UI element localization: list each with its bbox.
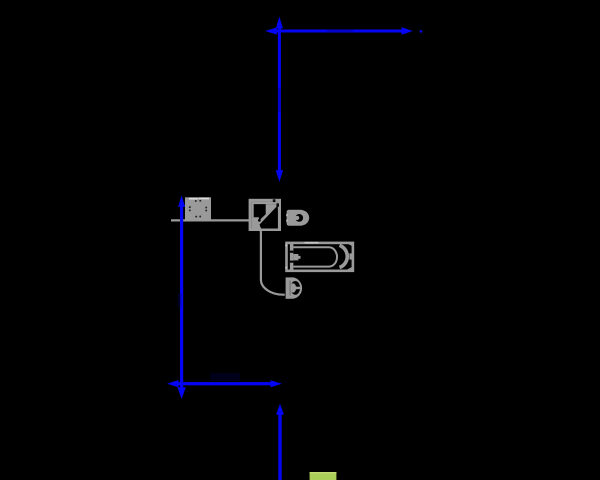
- dim text remnant above H2: [210, 373, 240, 381]
- dimension line V2 (left vertical, arrows both ends): [177, 196, 185, 400]
- stray blue dot right of H1 arrow: [420, 30, 423, 33]
- wall line with curved pipe to toilet: [171, 220, 285, 294]
- dimension line H2 (bottom horizontal, arrows both ends): [167, 380, 282, 387]
- washing machine: [185, 197, 211, 220]
- sink: [286, 210, 309, 226]
- shower stall: [249, 199, 281, 231]
- dimension line H1 (top horizontal, arrows both ends): [265, 27, 413, 35]
- toilet: [286, 277, 302, 298]
- dim text remnant on V1: [278, 88, 281, 112]
- bathtub: [286, 242, 353, 271]
- dim text remnant on V2: [178, 294, 182, 307]
- dimension line V3 (bottom vertical, arrow at top): [276, 404, 284, 480]
- dimension line V1 (top vertical, arrows both ends): [276, 17, 283, 182]
- green highlight rectangle: [310, 472, 337, 480]
- dim text remnant on H1: [327, 29, 353, 32]
